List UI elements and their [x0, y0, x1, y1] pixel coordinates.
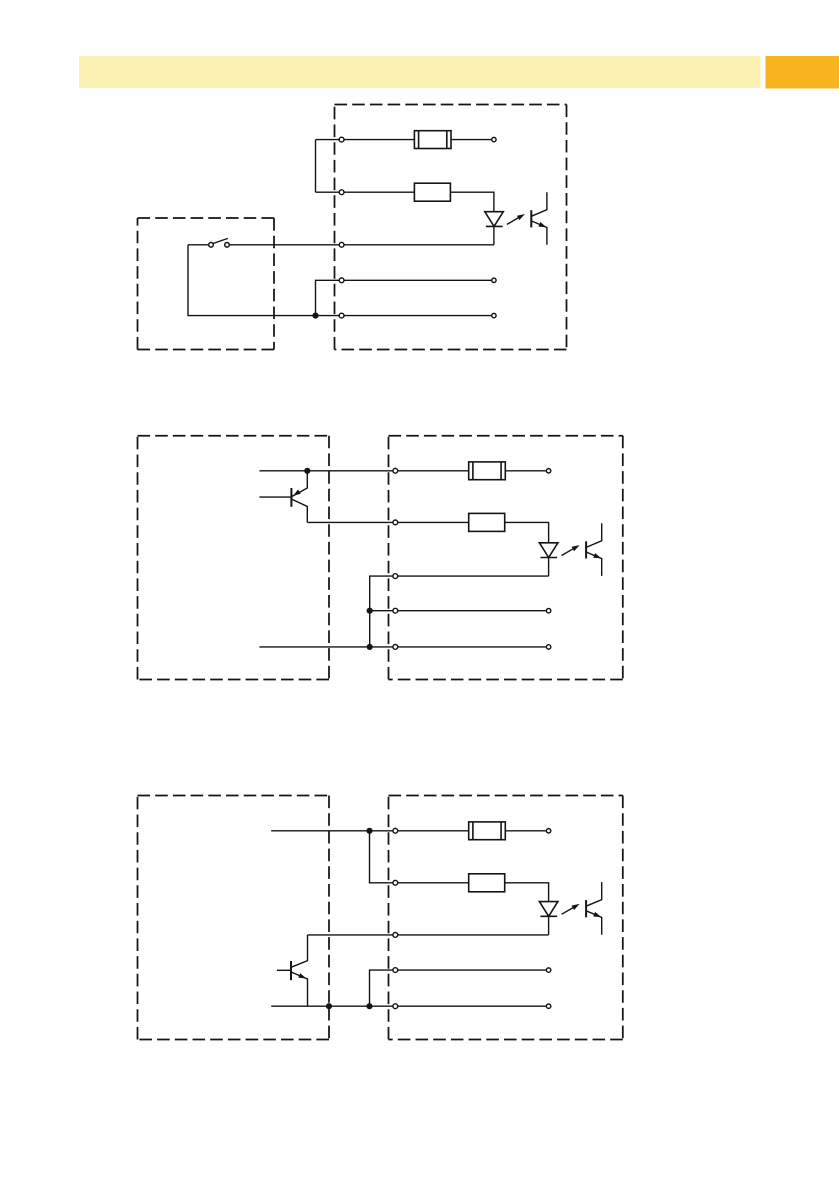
terminal 3	[339, 242, 344, 247]
terminal 5	[393, 1004, 398, 1009]
wire row5	[259, 646, 546, 648]
terminal 3	[393, 933, 398, 938]
LED D1 (optocoupler emitter)	[485, 212, 504, 227]
resistor R3	[469, 874, 505, 892]
pin circle row4 right	[546, 968, 550, 972]
external device box (dashed, left)	[138, 436, 330, 680]
terminal 5	[393, 645, 398, 650]
wire row2	[307, 521, 468, 523]
wire row4	[370, 610, 546, 612]
wire jumper row1-row2	[315, 140, 317, 193]
pin circle row5 right	[546, 645, 550, 649]
wire row3 with drop to row5	[370, 576, 549, 647]
wire row4 with drop to row5	[316, 280, 492, 315]
phototransistor T2 (optocoupler detector)	[586, 523, 602, 576]
resistor R2	[469, 513, 505, 531]
junction row5/box edge	[326, 1003, 332, 1009]
terminal 4	[393, 968, 398, 973]
terminal 2	[339, 190, 344, 195]
wire row1 right segment	[505, 830, 546, 832]
terminal 4	[393, 608, 398, 613]
terminal 4	[339, 278, 344, 283]
wire row5	[271, 1005, 546, 1007]
external device box (dashed, left)	[138, 796, 330, 1040]
fuse F2	[469, 462, 506, 480]
terminal 1	[339, 137, 344, 142]
junction row5/row4 drop	[366, 1003, 372, 1009]
wire row2 right segment to LED	[505, 883, 549, 902]
phototransistor T3 (optocoupler detector)	[586, 882, 602, 935]
pin circle row1 right	[546, 829, 550, 833]
wire row3	[308, 934, 549, 936]
wire row2 right segment to LED	[505, 522, 549, 542]
module box (dashed, right)	[335, 105, 567, 350]
fuse F1	[414, 131, 451, 149]
junction row4/row5	[312, 313, 318, 319]
header highlight band	[79, 56, 761, 88]
LED D3 (optocoupler emitter)	[539, 902, 558, 917]
junction row1/emitter	[304, 468, 310, 474]
module box (dashed, right)	[389, 796, 623, 1040]
external device box (dashed, left)	[138, 218, 275, 350]
terminal 1	[393, 468, 398, 473]
switch S1	[188, 238, 229, 247]
terminal 3	[393, 574, 398, 579]
pin circle row4 right	[492, 278, 496, 282]
wire row3	[230, 244, 494, 246]
junction row5	[367, 644, 373, 650]
wire row2 left segment	[316, 191, 415, 193]
module box (dashed, right)	[389, 436, 623, 680]
wire row1	[259, 470, 468, 472]
pin circle row1 right	[492, 137, 496, 141]
LED D2 (optocoupler emitter)	[539, 543, 558, 558]
pin circle row4 right	[546, 609, 550, 613]
wire row4 with drop to row5	[370, 970, 546, 1006]
terminal 5	[339, 313, 344, 318]
wire switch return (left, down, row5)	[188, 245, 491, 316]
wire LED cathode to row3	[548, 558, 550, 577]
wire row1 left segment	[316, 139, 415, 141]
pin circle row5 right	[546, 1004, 550, 1008]
terminal 1	[393, 828, 398, 833]
resistor R1	[414, 183, 450, 201]
transistor Q1 (PNP, external)	[259, 471, 307, 523]
wire row2 right segment to LED	[450, 192, 494, 212]
light arrow	[507, 214, 525, 224]
wire row1	[271, 830, 469, 832]
junction row1/jumper	[366, 828, 372, 834]
header orange tab	[766, 56, 839, 89]
junction row4	[367, 608, 373, 614]
terminal 2	[393, 520, 398, 525]
wire row1 right segment	[505, 470, 546, 472]
fuse F3	[469, 822, 506, 840]
terminal 2	[393, 880, 398, 885]
wire row1 right segment	[451, 139, 491, 141]
wire jumper row1-row2	[370, 831, 469, 883]
pin circle row1 right	[546, 469, 550, 473]
phototransistor T1 (optocoupler detector)	[531, 192, 547, 245]
light arrow	[562, 545, 580, 555]
pin circle row5 right	[492, 313, 496, 317]
light arrow	[562, 904, 580, 914]
transistor Q2 (NPN, external)	[277, 935, 308, 1006]
wire LED cathode to row3	[493, 226, 495, 244]
wire LED cathode to row3	[548, 916, 550, 935]
